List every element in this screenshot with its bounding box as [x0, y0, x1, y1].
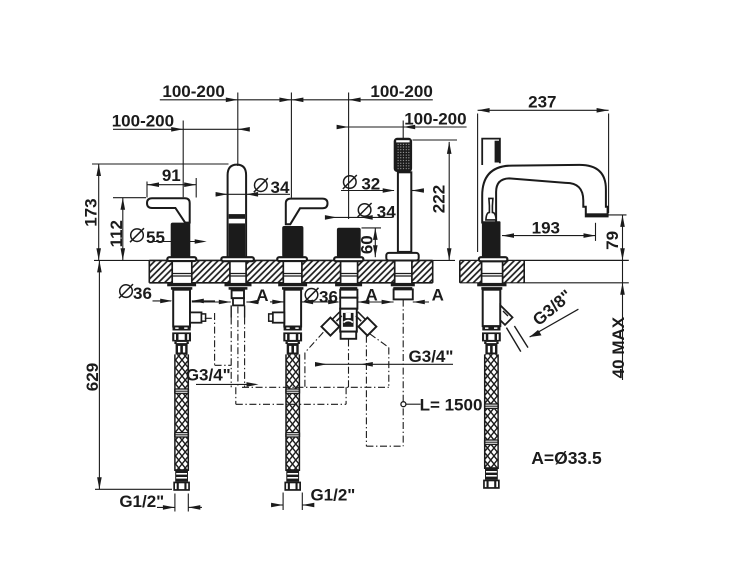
- right spout below-deck body: [483, 290, 501, 326]
- centerline: diverter right port diagonal: [370, 334, 389, 348]
- locknut handshower: [391, 283, 415, 286]
- svg-text:100-200: 100-200: [112, 112, 174, 131]
- hose 3 end fitting: [485, 467, 498, 479]
- label G1/2 (hose2 end): [282, 493, 284, 511]
- svg-text:91: 91: [162, 166, 181, 185]
- handshower wand head: [394, 138, 412, 172]
- handle H1 (left lever handle): [147, 198, 190, 222]
- dim 79 (outlet height): [601, 214, 627, 216]
- dim row1: 100-200 (spout to handle2): [160, 99, 433, 101]
- svg-text:100-200: 100-200: [370, 82, 432, 101]
- diverter angled port right: [358, 318, 376, 336]
- valve V1 under handle1: [173, 290, 190, 327]
- locknut diverter: [335, 283, 362, 286]
- svg-text:34: 34: [377, 203, 396, 222]
- centerline: tub spout supply pipes: [230, 318, 232, 388]
- right spout flange: [479, 257, 508, 261]
- right spout: small lever on riser: [486, 198, 496, 220]
- dim D34 (diverter): [325, 216, 393, 218]
- svg-text:79: 79: [603, 231, 622, 250]
- deck slab (main, hatched): [149, 260, 432, 282]
- label G1/2 (hose1 end): [174, 494, 176, 512]
- centerline: diverter bottom port: [348, 340, 350, 388]
- valve V2 under handle2: [284, 290, 301, 327]
- svg-text:G1/2": G1/2": [119, 492, 164, 511]
- svg-text:100-200: 100-200: [162, 82, 224, 101]
- right spout nut stack: [482, 327, 500, 331]
- right spout: arm and riser tube: [482, 165, 607, 223]
- svg-text:34: 34: [271, 178, 290, 197]
- dim D32 (handshower): [341, 190, 394, 192]
- dim 112 (lever top to deck): [113, 197, 146, 199]
- tub spout flange: [221, 257, 254, 261]
- svg-text:60: 60: [358, 235, 377, 254]
- diverter angled port left: [321, 318, 339, 336]
- handshower connector below deck: [394, 289, 413, 299]
- svg-text:A: A: [432, 286, 444, 305]
- diverter flange: [334, 257, 363, 261]
- handshower base: [386, 253, 418, 261]
- svg-text:36: 36: [133, 284, 152, 303]
- hose 1 end fitting G1/2: [175, 469, 188, 481]
- dim 629 (deck to hose end): [94, 259, 149, 261]
- svg-text:173: 173: [81, 198, 100, 226]
- dim row2: 100-200 (diverter to handshower): [338, 126, 467, 128]
- dim D34 (tub spout): [216, 193, 290, 195]
- svg-text:237: 237: [528, 93, 556, 112]
- dim A (handshower connector): [382, 300, 394, 305]
- right spout: joystick handle: [482, 139, 500, 165]
- svg-text:32: 32: [361, 175, 380, 194]
- deck slab (right, hatched): [460, 260, 524, 282]
- svg-text:629: 629: [83, 363, 102, 391]
- handle H1 flange: [167, 257, 196, 261]
- svg-text:G1/2": G1/2": [310, 485, 355, 504]
- dim D36 (valve1): [153, 300, 172, 302]
- handle H2 (second lever handle): [286, 199, 328, 225]
- dim A (diverter connector): [328, 300, 340, 305]
- right spout G3/8 angled stub: [500, 305, 512, 325]
- diverter tee below deck: [340, 290, 357, 298]
- svg-text:A: A: [365, 286, 377, 305]
- centerline: diverter left port diagonal: [305, 332, 323, 352]
- braided hose 1: [175, 354, 188, 471]
- centerline: connection zone box A: [242, 386, 389, 388]
- handle H2 flange: [277, 257, 307, 261]
- handle H2 body: [282, 226, 303, 257]
- tub spout connector below deck: [232, 290, 244, 298]
- svg-text:A: A: [256, 286, 268, 305]
- svg-text:112: 112: [107, 220, 126, 247]
- dim 40 MAX (deck thickness): [622, 260, 624, 380]
- locknut handle2: [278, 283, 307, 286]
- shank handshower: [395, 260, 412, 283]
- svg-text:A=Ø33.5: A=Ø33.5: [531, 448, 602, 468]
- right spout: black body: [482, 221, 501, 257]
- dim D36 (valve2): [270, 301, 284, 303]
- svg-text:100-200: 100-200: [404, 109, 466, 128]
- label G3/8 (right spout supply): [506, 328, 520, 352]
- locknut spout: [225, 283, 252, 286]
- centerline: handle1 port to spout pipe: [205, 317, 215, 319]
- shank spout: [230, 260, 246, 283]
- locknut handle1: [167, 283, 196, 286]
- dim 222 (handshower height): [413, 139, 458, 141]
- dim 237 (right spout reach): [477, 114, 479, 253]
- svg-text:L= 1500: L= 1500: [420, 396, 483, 415]
- dim 60 (diverter height): [362, 227, 382, 229]
- svg-text:G3/4": G3/4": [186, 366, 231, 385]
- shank diverter: [341, 260, 358, 283]
- braided hose 3 (right spout): [485, 354, 498, 469]
- label L=1500 (handshower hose length): [401, 402, 406, 407]
- svg-text:40 MAX: 40 MAX: [609, 316, 628, 378]
- dim 91 (handle1 lever): [146, 182, 148, 198]
- dim 193 (riser to outlet): [595, 223, 597, 241]
- handle H1 body: [171, 223, 191, 258]
- centerline: handshower hose route box B: [365, 336, 367, 446]
- dim row2: 100-200 (handle1 to spout): [113, 128, 249, 130]
- dim A (tub spout connector): [192, 301, 231, 303]
- svg-text:55: 55: [146, 228, 165, 247]
- extension centerlines above fixtures: [182, 121, 184, 198]
- handshower wand body: [398, 172, 411, 252]
- svg-text:G3/4": G3/4": [409, 347, 454, 366]
- tub spout (center column): [228, 165, 247, 258]
- dim 173 (left, spout top to deck): [92, 163, 229, 165]
- locknut right spout: [477, 283, 506, 286]
- dim D55 leader (flange dia): [152, 241, 196, 243]
- shank right spout: [482, 260, 503, 283]
- hose 2 end fitting G1/2: [286, 469, 299, 481]
- shank handle1: [172, 260, 192, 283]
- braided hose 2: [286, 354, 299, 471]
- svg-text:193: 193: [532, 219, 560, 238]
- svg-text:222: 222: [429, 185, 448, 213]
- diverter knob: [337, 228, 361, 258]
- shank handle2: [283, 260, 302, 283]
- dim row1: 100-200 (handle2 to diverter): [349, 98, 361, 103]
